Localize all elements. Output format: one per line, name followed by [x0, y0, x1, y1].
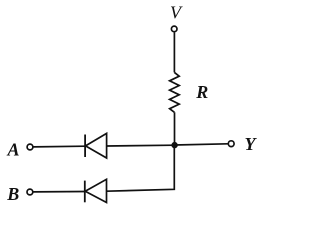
wire resistor to junction — [174, 112, 176, 145]
diode D2 cathode bar — [84, 181, 86, 203]
wire diode D2 to corner — [107, 148, 175, 191]
output terminal Y — [228, 141, 234, 147]
wire B terminal to diode D2 — [33, 191, 84, 193]
resistor R — [170, 72, 180, 112]
diode D1 cathode bar — [84, 135, 86, 158]
terminal V — [171, 26, 177, 32]
wire A terminal to diode D1 — [34, 145, 86, 148]
svg-text:B: B — [6, 184, 19, 204]
wire diode D1 to junction — [107, 144, 175, 147]
svg-text:Y: Y — [245, 134, 258, 154]
input terminal B — [27, 189, 33, 195]
wire V terminal to resistor — [173, 32, 175, 72]
input terminal A — [27, 144, 33, 150]
diode D1 triangle — [86, 133, 107, 158]
svg-text:V: V — [170, 2, 183, 22]
svg-text:R: R — [195, 82, 208, 102]
diode D2 triangle — [85, 179, 106, 202]
junction node — [171, 142, 177, 148]
svg-text:A: A — [6, 140, 19, 160]
wire junction to Y terminal — [175, 144, 228, 145]
